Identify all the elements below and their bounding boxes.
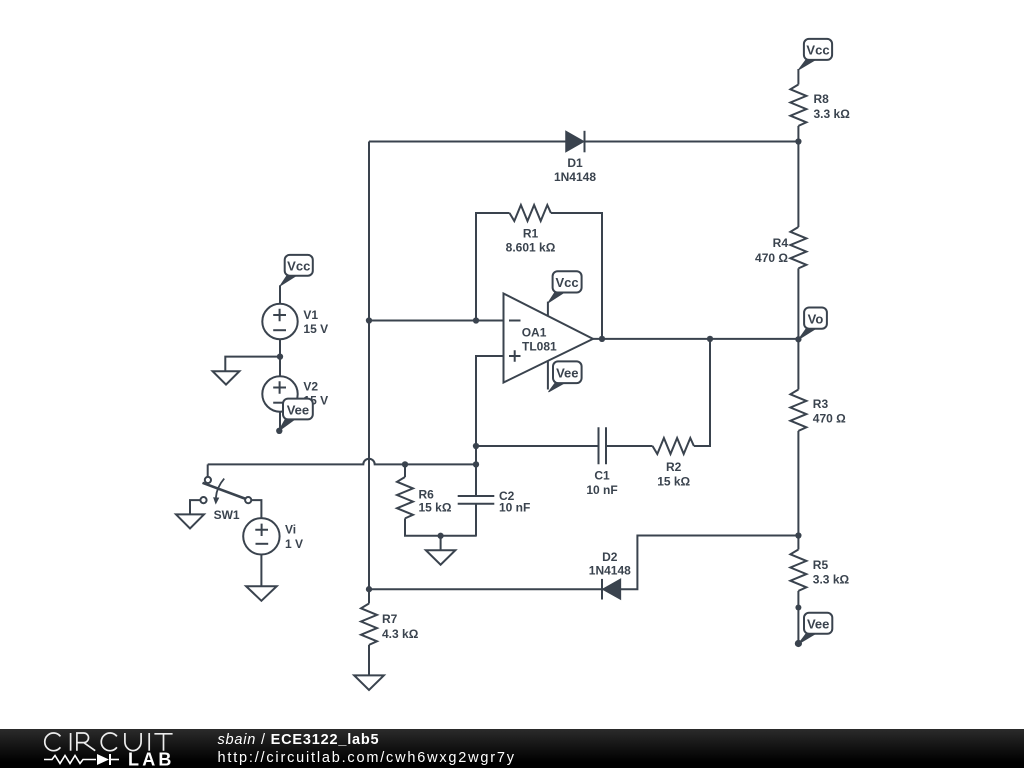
wire noninv input xyxy=(476,356,504,496)
svg-text:4.3 kΩ: 4.3 kΩ xyxy=(382,627,419,641)
svg-text:R1: R1 xyxy=(523,226,539,240)
wire R8node to R4 xyxy=(797,142,799,228)
ground (R7) xyxy=(354,675,384,690)
wire R5 to Vee terminal xyxy=(797,591,799,644)
svg-text:LAB: LAB xyxy=(128,750,175,768)
junction noninv-C1 row xyxy=(473,443,479,449)
terminal Vee dot xyxy=(795,640,802,647)
svg-text:R8: R8 xyxy=(814,92,830,106)
svg-text:http://circuitlab.com/cwh6wxg2: http://circuitlab.com/cwh6wxg2wgr7y xyxy=(218,750,516,766)
svg-text:15 V: 15 V xyxy=(303,322,328,336)
junction D2-R5 node xyxy=(795,532,801,538)
svg-text:Vcc: Vcc xyxy=(806,43,829,58)
flag Vcc (left) xyxy=(280,275,298,286)
source Vi xyxy=(243,518,303,554)
capacitor C2 xyxy=(458,489,531,536)
svg-text:Vcc: Vcc xyxy=(287,259,310,274)
resistor R7 xyxy=(361,589,419,675)
op-amp OA1 xyxy=(504,294,594,383)
svg-text:Vi: Vi xyxy=(285,523,296,537)
flag Vo xyxy=(799,328,818,340)
svg-text:R5: R5 xyxy=(813,558,829,572)
resistor R6 xyxy=(397,464,452,535)
svg-text:R6: R6 xyxy=(419,487,435,501)
wire R4 to Vo node xyxy=(797,268,799,339)
flag Vee (bottom right) xyxy=(799,633,818,644)
wire D2 row xyxy=(369,536,798,590)
svg-text:15 kΩ: 15 kΩ xyxy=(657,474,690,488)
svg-text:R4: R4 xyxy=(773,236,789,250)
svg-text:470 Ω: 470 Ω xyxy=(813,411,846,425)
flag Vcc (op-amp) xyxy=(548,292,566,303)
svg-text:3.3 kΩ: 3.3 kΩ xyxy=(814,107,851,121)
wire input row xyxy=(208,459,476,465)
flag Vee (left) xyxy=(279,418,296,431)
junction output-R2 branch xyxy=(707,336,713,342)
logo resistor-diode symbol xyxy=(44,756,96,764)
logo CIRCUIT xyxy=(45,733,173,751)
wire V1 to gnd node xyxy=(279,339,281,356)
wire R2 to output xyxy=(694,339,710,446)
junction noninv-input row xyxy=(473,461,479,467)
resistor R1 xyxy=(506,205,556,255)
wire op-amp Vcc pin xyxy=(547,302,549,316)
svg-text:10 nF: 10 nF xyxy=(586,483,617,497)
wire R6-C2 bottom xyxy=(404,535,477,537)
svg-text:R2: R2 xyxy=(666,460,682,474)
svg-text:OA1: OA1 xyxy=(522,326,547,340)
wire node to V2 xyxy=(279,357,281,377)
source V1 xyxy=(262,304,328,339)
svg-text:V2: V2 xyxy=(303,379,318,393)
wire C1 to R2 xyxy=(606,445,653,447)
wire op-amp Vee pin xyxy=(547,361,549,390)
junction ground mid xyxy=(437,533,443,539)
wire feedback left xyxy=(476,213,510,321)
wire Vcc to R8 xyxy=(797,69,799,85)
svg-text:V1: V1 xyxy=(303,308,318,322)
ground (V1/V2) xyxy=(213,371,240,384)
wire R3 to D2 node xyxy=(797,431,799,536)
terminal V2 dot xyxy=(276,428,282,434)
wire input to SW1 xyxy=(207,464,209,476)
ground (SW1) xyxy=(176,514,204,528)
wire gnd branch xyxy=(225,357,280,372)
svg-text:Vee: Vee xyxy=(287,402,309,417)
resistor R8 xyxy=(790,85,850,126)
footer bar xyxy=(0,729,1024,768)
svg-text:D1: D1 xyxy=(567,156,583,170)
resistor R4 xyxy=(755,227,806,268)
flag Vee (op-amp) xyxy=(549,382,567,392)
junction V1-V2 xyxy=(277,353,283,359)
wire top rail (D1 row) xyxy=(369,141,798,143)
svg-text:C1: C1 xyxy=(594,469,610,483)
svg-text:Vcc: Vcc xyxy=(556,275,579,290)
svg-text:Vee: Vee xyxy=(807,617,829,632)
wire C1 row left xyxy=(476,445,599,447)
source V2 xyxy=(262,376,328,411)
svg-text:TL081: TL081 xyxy=(522,340,557,354)
ground (R6/C2) xyxy=(440,536,442,550)
ground (Vi) xyxy=(246,586,277,601)
svg-text:15 kΩ: 15 kΩ xyxy=(419,501,452,515)
diode D1 xyxy=(554,131,596,184)
junction inv-left xyxy=(366,317,372,323)
svg-text:1N4148: 1N4148 xyxy=(589,564,631,578)
junction below R5 xyxy=(795,605,801,611)
svg-text:Vee: Vee xyxy=(556,366,578,381)
resistor R3 xyxy=(790,390,846,431)
wire Vcc to V1 xyxy=(279,285,281,304)
svg-text:R3: R3 xyxy=(813,397,829,411)
svg-text:470 Ω: 470 Ω xyxy=(755,251,788,265)
junction top-right xyxy=(795,138,801,144)
flag Vcc (top right) xyxy=(799,59,817,70)
junction Vo xyxy=(795,336,801,342)
wire feedback right xyxy=(551,213,602,339)
switch SW1 xyxy=(200,477,251,522)
junction R6 top xyxy=(402,461,408,467)
wire V2 to Vee terminal xyxy=(279,412,281,431)
wire D2 node to R5 xyxy=(797,536,799,550)
resistor R5 xyxy=(790,550,849,591)
wire left vertical xyxy=(368,142,370,590)
junction output xyxy=(599,336,605,342)
svg-text:R7: R7 xyxy=(382,612,398,626)
svg-text:Vo: Vo xyxy=(808,311,824,326)
svg-text:3.3 kΩ: 3.3 kΩ xyxy=(813,573,850,587)
wire Vo node to R3 xyxy=(797,339,799,389)
svg-text:D2: D2 xyxy=(602,550,618,564)
svg-text:1N4148: 1N4148 xyxy=(554,170,596,184)
junction D2 row left xyxy=(366,586,372,592)
svg-text:8.601 kΩ: 8.601 kΩ xyxy=(506,241,556,255)
svg-text:10 nF: 10 nF xyxy=(499,500,530,514)
svg-text:1 V: 1 V xyxy=(285,537,303,551)
svg-text:sbain / ECE3122_lab5: sbain / ECE3122_lab5 xyxy=(218,732,380,748)
junction inv-feedback xyxy=(473,317,479,323)
wire output xyxy=(593,338,798,340)
diode D2 xyxy=(589,550,631,599)
wire SW1 left throw to gnd xyxy=(190,500,200,514)
svg-text:SW1: SW1 xyxy=(214,508,240,522)
wire SW1 right throw to Vi xyxy=(251,500,261,518)
resistor R2 xyxy=(653,438,694,488)
wire inverting input xyxy=(369,320,504,322)
wire Vi to gnd xyxy=(260,555,262,586)
wire R8 to node xyxy=(797,126,799,142)
capacitor C1 xyxy=(586,427,617,497)
